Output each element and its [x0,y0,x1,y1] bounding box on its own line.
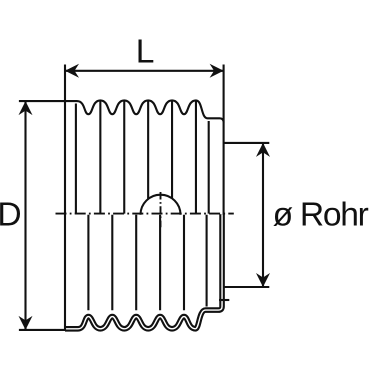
corrugation ridge line upper 3 [123,101,125,213]
corrugation ridge line lower 3 [135,215,137,311]
bellows left edge (also L + D extension) [64,65,66,331]
corrugation ridge line upper 5 (stops at dome) [171,101,173,198]
arrow Rohr top [256,143,270,157]
horizontal centerline (dash-dot) [56,213,234,215]
arrow Rohr bottom [256,273,270,287]
corrugation ridge line upper 7 (end collar) [208,121,210,214]
corrugation ridge line upper 2 [99,101,101,213]
corrugation ridge line lower 5 [183,215,185,311]
corrugation ridge line upper 4 (stops at dome) [147,101,149,199]
svg-text:D: D [0,197,22,234]
dimension D extension top [19,100,66,102]
bellows right edge upper (also L extension) [223,65,225,215]
dimension Rohr extension bottom [224,286,270,288]
svg-text:ø Rohr: ø Rohr [273,196,369,233]
corrugation ridge line lower 2 [111,215,113,311]
dimension D line [24,101,26,330]
corrugation ridge line upper 1 [75,104,77,214]
bellows lower outline, white core creating the double-line material thickness [65,214,222,328]
dimension L line [65,70,224,72]
bellows lower outline, outer stroke (bottom corrugated edge + right lower edge, shown as double line) [65,214,222,328]
arrow D top [19,101,33,115]
arrow D bottom [19,316,33,330]
dome (pipe bump) on centerline [141,195,181,215]
pipe end tick bottom right [219,299,229,301]
corrugation ridge line upper 6 [195,101,197,213]
dome vertical centerline (dash-dot) [160,192,162,227]
arrow L left [65,64,79,78]
svg-text:L: L [136,34,155,71]
corrugation ridge line lower 4 [159,215,161,311]
dimension Rohr extension top [224,142,270,144]
dimension D extension bottom [19,329,66,331]
corrugation ridge line lower 6 (end collar) [206,215,208,307]
dimension Rohr line [262,143,264,287]
arrow L right [210,64,224,78]
corrugation ridge line lower 1 [87,215,89,311]
bellows top edge with corrugation wave [65,100,224,122]
